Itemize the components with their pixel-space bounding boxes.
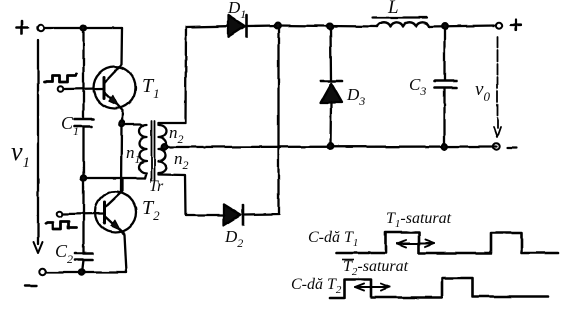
svg-text:v0: v0 [475,79,490,104]
svg-text:C-dă T2: C-dă T2 [291,276,342,296]
svg-text:n2: n2 [169,123,184,146]
svg-text:T2: T2 [142,197,160,223]
svg-text:L: L [387,0,399,18]
svg-text:C2: C2 [55,241,73,266]
svg-text:T1: T1 [142,75,160,101]
svg-text:D2: D2 [224,227,243,250]
svg-text:C3: C3 [409,75,426,98]
svg-text:T2-saturat: T2-saturat [343,258,409,278]
svg-text:T1-saturat: T1-saturat [386,210,452,230]
svg-text:v1: v1 [11,137,30,171]
svg-text:Tr: Tr [149,178,164,195]
svg-text:n2: n2 [174,149,189,172]
svg-text:D3: D3 [346,85,365,108]
svg-text:n1: n1 [126,143,141,166]
svg-text:C1: C1 [61,113,79,138]
svg-text:C-dă T1: C-dă T1 [308,229,358,249]
